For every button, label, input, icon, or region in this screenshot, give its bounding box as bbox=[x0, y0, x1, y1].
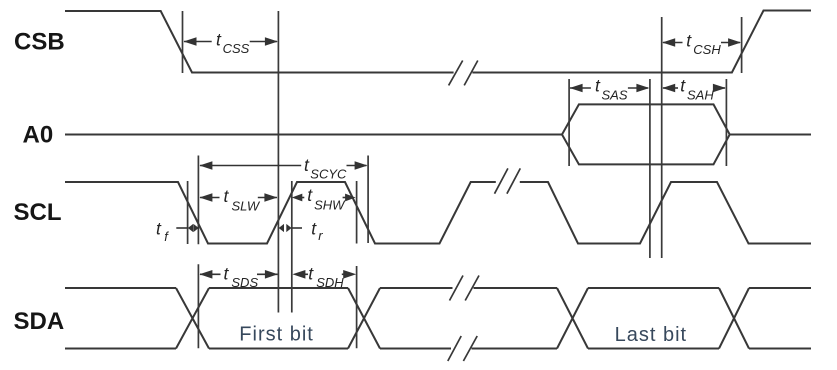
measure line tSAH right x=726.4 bbox=[725, 79, 727, 166]
arrow tr (double head and tail) bbox=[292, 227, 302, 229]
wire SDA middle segment with breaks bbox=[380, 288, 557, 349]
measure line tCSH right x=741.6 bbox=[741, 17, 743, 73]
svg-text:CSH: CSH bbox=[693, 42, 721, 57]
measure line tSHW right / tSDH right x=356.6 bbox=[356, 181, 358, 348]
svg-text:f: f bbox=[164, 229, 169, 244]
arrow tSHW bbox=[298, 197, 304, 199]
svg-text:t: t bbox=[307, 185, 313, 205]
svg-text:SDS: SDS bbox=[231, 275, 258, 290]
svg-text:SCYC: SCYC bbox=[310, 167, 347, 182]
measure line tCSS left at x=182.5 bbox=[182, 11, 184, 73]
node SDA crossing X3 bbox=[557, 288, 588, 349]
svg-text:CSB: CSB bbox=[14, 29, 65, 56]
arrow tSCYC bbox=[200, 165, 301, 167]
svg-text:t: t bbox=[216, 30, 222, 50]
arrow tSLW bbox=[200, 197, 220, 199]
wire SCL break slashes bbox=[495, 168, 521, 193]
svg-text:SAH: SAH bbox=[687, 88, 714, 103]
wire A0 line left bbox=[65, 134, 562, 136]
wire CSB break slashes bbox=[449, 61, 478, 86]
measure line tSAS right long x=649.9 bbox=[649, 79, 651, 258]
svg-text:SDA: SDA bbox=[14, 308, 65, 335]
svg-text:t: t bbox=[156, 219, 162, 239]
svg-text:A0: A0 bbox=[23, 121, 54, 148]
svg-text:t: t bbox=[308, 264, 314, 284]
measure line tSAS left x=569.1 bbox=[568, 79, 570, 166]
arrow tSAH bbox=[663, 87, 678, 89]
svg-text:SAS: SAS bbox=[602, 88, 628, 103]
arrow tf (tail and double head) bbox=[176, 227, 187, 229]
svg-text:t: t bbox=[224, 186, 230, 206]
wire SDA right tails bbox=[749, 288, 811, 349]
svg-text:SCL: SCL bbox=[14, 199, 62, 226]
measure line tSCYC right x=368.1 bbox=[367, 156, 369, 244]
wire SDA first-bit eye bbox=[209, 288, 348, 349]
svg-text:SLW: SLW bbox=[232, 199, 261, 214]
wire SDA high left bbox=[65, 288, 176, 349]
measure line tr right / tSDH left x=291.8 bbox=[291, 181, 293, 313]
svg-text:t: t bbox=[224, 264, 230, 284]
measure line tf left x=187.6 bbox=[187, 181, 189, 244]
wire A0 line right bbox=[730, 134, 811, 136]
arrow tCSS bbox=[184, 41, 212, 43]
wire SDA break slashes top bbox=[450, 276, 480, 301]
arrow tCSH bbox=[663, 42, 683, 44]
node SDA crossing X1 bbox=[176, 288, 209, 349]
svg-text:Last bit: Last bit bbox=[615, 324, 687, 346]
svg-text:t: t bbox=[680, 76, 686, 96]
svg-text:First bit: First bit bbox=[239, 324, 314, 346]
wire A0 bus eye bbox=[562, 104, 730, 164]
svg-text:t: t bbox=[595, 76, 601, 96]
svg-text:t: t bbox=[304, 155, 310, 175]
svg-text:r: r bbox=[318, 228, 323, 243]
measure line long reference x=278.4 bbox=[277, 11, 279, 313]
measure line tSCYC/tSLW/tSDS left x=198.4 bbox=[197, 156, 199, 349]
svg-text:t: t bbox=[311, 219, 317, 239]
wire SDA last-bit eye bbox=[588, 288, 719, 349]
node SDA crossing X4 bbox=[719, 288, 749, 349]
wire SCL waveform bbox=[65, 182, 811, 244]
measure line tCSH left long x=661.7 bbox=[661, 17, 663, 258]
wire CSB waveform bbox=[65, 11, 811, 73]
svg-text:CSS: CSS bbox=[223, 41, 250, 56]
arrow tSDH bbox=[298, 273, 308, 275]
wire SDA break slashes bottom bbox=[448, 336, 477, 361]
svg-text:t: t bbox=[686, 31, 692, 51]
arrow tSDS bbox=[200, 273, 221, 275]
arrow tSAS bbox=[570, 87, 591, 89]
node SDA crossing X2 bbox=[348, 288, 380, 349]
svg-text:SDH: SDH bbox=[316, 275, 344, 290]
svg-text:SHW: SHW bbox=[314, 198, 346, 213]
